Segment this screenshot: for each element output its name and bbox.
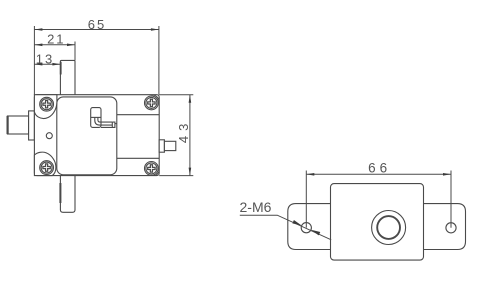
svg-text:65: 65: [88, 17, 106, 32]
svg-text:2-M6: 2-M6: [240, 199, 272, 215]
svg-text:66: 66: [368, 160, 391, 175]
svg-text:13: 13: [36, 52, 54, 67]
svg-text:43: 43: [176, 119, 191, 143]
svg-text:21: 21: [47, 31, 65, 46]
